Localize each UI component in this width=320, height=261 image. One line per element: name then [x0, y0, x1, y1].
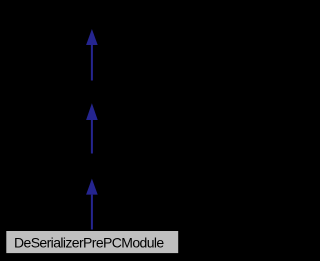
- arrow (inheritance, top): [86, 29, 98, 81]
- class box DeSerializerPrePCModule: [6, 231, 178, 253]
- svg-text:DeSerializerPrePCModule: DeSerializerPrePCModule: [14, 235, 164, 251]
- inheritance diagram: DeSerializerPrePCModule: [0, 0, 184, 261]
- arrow (inheritance, middle): [86, 103, 98, 153]
- arrow (inheritance, bottom): [86, 179, 98, 230]
